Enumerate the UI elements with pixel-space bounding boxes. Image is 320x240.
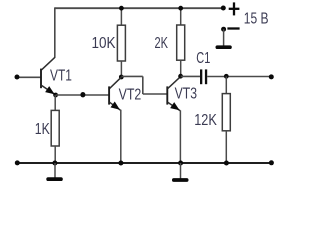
svg-text:12K: 12K: [194, 112, 217, 129]
node input terminal: [15, 75, 20, 80]
wire 12K bottom lead: [225, 131, 227, 163]
wire 10K bottom lead: [120, 61, 122, 77]
node VT2 emitter rail junction: [118, 161, 123, 166]
wire 1K bottom lead: [54, 146, 56, 163]
resistor R 10K body: [117, 25, 125, 61]
node 1K-rail junction: [52, 161, 57, 166]
svg-text:VT3: VT3: [175, 86, 197, 103]
wire VT3 collector diagonal: [168, 77, 181, 89]
ground symbol middle bar: [172, 178, 189, 182]
transistor VT2 base bar: [108, 86, 110, 104]
ground symbol left bar: [46, 177, 63, 181]
resistor R 2K body: [177, 25, 185, 60]
wire VT2 emitter vertical: [120, 110, 122, 163]
svg-text:C1: C1: [196, 50, 210, 67]
wire VT3 collector to C1: [181, 75, 200, 77]
node junction on base wire: [80, 92, 85, 97]
node battery minus terminal: [221, 27, 226, 32]
svg-text:10K: 10K: [92, 35, 116, 52]
wire bottom rail: [17, 162, 270, 164]
wire coupling VT2 collector to elbow: [121, 75, 142, 77]
transistor VT1 base bar: [40, 69, 42, 89]
node 2K top rail junction: [178, 6, 183, 11]
svg-text:VT2: VT2: [119, 87, 142, 104]
node 12K top junction: [224, 74, 229, 79]
wire elbow to VT3 base: [143, 93, 167, 95]
node output terminal top: [269, 74, 274, 79]
wire VT2 collector diagonal: [110, 77, 122, 88]
resistor R 12K body: [222, 94, 230, 131]
wire C1 to output: [207, 76, 271, 78]
transistor VT3 emitter: [168, 102, 181, 111]
wire minus to ground: [223, 29, 225, 46]
node battery plus terminal: [221, 6, 226, 11]
node VT1 emitter junction: [53, 93, 58, 98]
node VT2 collector junction: [119, 75, 124, 80]
battery plus sign: [229, 2, 240, 15]
wire top rail +15V: [55, 7, 223, 9]
wire elbow vertical: [142, 76, 144, 94]
resistor R 1K body: [51, 110, 59, 146]
wire input to VT1 base: [18, 76, 41, 78]
ground symbol power bar: [216, 45, 232, 49]
transistor VT2 emitter arrow: [111, 101, 123, 112]
battery minus sign: [227, 27, 239, 29]
svg-text:1K: 1K: [35, 121, 50, 138]
wire 2K top lead: [180, 8, 182, 25]
transistor VT3 emitter arrow: [170, 102, 181, 113]
ground symbol middle stem: [180, 163, 182, 179]
ground symbol left stem: [54, 163, 56, 178]
svg-text:15 В: 15 В: [244, 11, 269, 28]
node bottom left terminal: [15, 160, 20, 165]
capacitor C1 left plate: [200, 69, 202, 84]
wire 12K top lead: [225, 76, 227, 93]
wire VT3 emitter vertical: [179, 110, 181, 163]
transistor VT3 base bar: [166, 86, 168, 104]
transistor VT2 emitter: [110, 102, 121, 110]
svg-text:VT1: VT1: [50, 68, 72, 85]
wire 2K bottom lead: [180, 60, 182, 76]
wire VT1 collector vertical: [54, 7, 56, 57]
svg-text:2K: 2K: [155, 35, 169, 52]
wire VT1 emitter to VT2 base: [56, 94, 109, 96]
node 12K rail junction: [224, 161, 229, 166]
capacitor C1 right plate: [205, 69, 207, 84]
node 10K top rail junction: [119, 6, 124, 11]
transistor VT1 emitter: [42, 85, 56, 94]
transistor VT1 emitter arrow: [45, 86, 56, 97]
node VT3 collector junction: [178, 74, 183, 79]
wire VT1 collector diagonal: [42, 57, 55, 70]
wire 1K top lead: [54, 95, 56, 111]
node VT3 emitter rail junction: [178, 161, 183, 166]
wire 10K top lead: [120, 8, 122, 25]
node bottom right terminal: [269, 160, 274, 165]
